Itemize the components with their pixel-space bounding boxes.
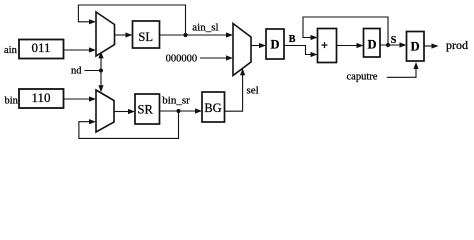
svg-text:caputre: caputre: [347, 72, 378, 83]
register D2: [364, 29, 381, 58]
wire feedback loop bin_sr to mux M2: [79, 111, 179, 138]
register D3: [407, 32, 425, 62]
block SR: [135, 94, 160, 124]
wire 000000 to mux M3: [200, 55, 233, 60]
wire SL output ain_sl: [160, 34, 227, 36]
svg-text:bin_sr: bin_sr: [162, 95, 190, 107]
mux M2 bottom: [96, 90, 114, 132]
wire SR output bin_sr: [160, 110, 196, 112]
wire 110 to mux M2: [64, 96, 97, 101]
svg-text:S: S: [391, 35, 397, 46]
arrow bin_sr into BG: [195, 108, 202, 113]
svg-text:bin: bin: [5, 95, 19, 106]
svg-text:SR: SR: [138, 102, 154, 116]
svg-text:sel: sel: [247, 85, 259, 97]
arrow ain_sl into mux M3: [226, 32, 233, 37]
wire B from D1 to adder: [284, 46, 318, 58]
junction nd: [99, 69, 103, 73]
junction S: [386, 43, 390, 47]
svg-text:B: B: [289, 34, 296, 45]
wire nd select: [85, 51, 104, 92]
svg-text:nd: nd: [71, 66, 82, 77]
wire feedback S to adder: [303, 17, 388, 43]
svg-text:011: 011: [31, 40, 50, 55]
svg-text:000000: 000000: [166, 53, 198, 64]
wire mux M2 to SR: [114, 109, 135, 114]
register box 110: [19, 89, 64, 108]
block BG: [202, 92, 225, 122]
wire sel from BG to mux M3: [225, 68, 246, 111]
adder block +: [318, 29, 337, 63]
wire mux M3 to D1: [251, 43, 266, 48]
mux M3 second stage: [233, 24, 251, 76]
svg-text:SL: SL: [138, 30, 153, 44]
mux M1 top: [96, 12, 115, 56]
svg-text:110: 110: [31, 90, 50, 105]
register D1: [266, 29, 284, 59]
svg-text:ain_sl: ain_sl: [192, 22, 218, 34]
svg-text:ain: ain: [4, 45, 18, 56]
wire adder to D2: [337, 43, 364, 48]
junction bin_sr: [176, 109, 180, 113]
wire feedback loop ain_sl to mux M1: [78, 5, 185, 35]
wire D3 to prod: [424, 43, 439, 48]
wire caputre to D3: [387, 62, 419, 77]
wire mux M1 to SL: [115, 32, 133, 37]
svg-text:D: D: [411, 40, 420, 54]
junction ain_sl: [183, 33, 187, 37]
wire D2 to D3 node S: [380, 42, 407, 47]
svg-text:prod: prod: [446, 38, 468, 52]
svg-text:D: D: [270, 37, 279, 51]
svg-text:D: D: [367, 38, 376, 52]
wire 011 to mux M1: [64, 47, 97, 52]
block SL: [133, 21, 160, 48]
svg-text:BG: BG: [204, 101, 221, 115]
register box 011: [19, 40, 64, 59]
